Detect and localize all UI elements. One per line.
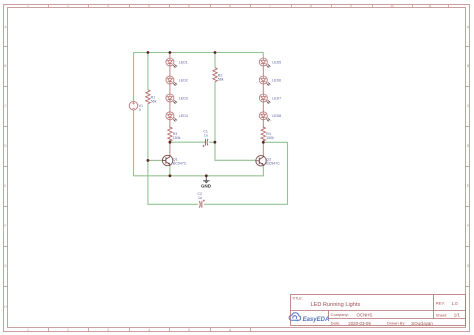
svg-text:10: 10 xyxy=(390,4,394,8)
Q2 collector lead xyxy=(262,142,264,155)
svg-text:1.0: 1.0 xyxy=(452,301,459,306)
LED LED5 xyxy=(259,58,281,67)
svg-text:2020-03-09: 2020-03-09 xyxy=(348,321,371,326)
svg-text:LED Running Lights: LED Running Lights xyxy=(311,302,361,308)
svg-text:6: 6 xyxy=(229,328,231,332)
svg-text:6: 6 xyxy=(229,4,231,8)
junction dot GND tap xyxy=(205,174,208,177)
LED LED2 xyxy=(166,76,188,85)
svg-text:EasyEDA: EasyEDA xyxy=(303,317,330,323)
svg-text:LED1: LED1 xyxy=(179,60,188,64)
resistor R4 xyxy=(261,127,274,141)
svg-text:3: 3 xyxy=(107,4,109,8)
frame column ticks top xyxy=(49,5,449,8)
svg-text:LED8: LED8 xyxy=(272,114,281,118)
svg-text:4: 4 xyxy=(148,328,150,332)
junction dot Q1 collector node xyxy=(169,141,172,144)
svg-text:4: 4 xyxy=(148,4,150,8)
svg-text:B: B xyxy=(4,64,6,68)
wire Q2 base run xyxy=(215,142,256,160)
LED LED6 xyxy=(259,76,281,85)
svg-text:1u: 1u xyxy=(204,134,208,138)
transistor Q2 xyxy=(256,155,280,166)
frame row ticks left xyxy=(4,47,8,287)
svg-text:OCNHS: OCNHS xyxy=(357,312,373,317)
LED LED3 xyxy=(166,94,188,103)
title block text xyxy=(292,296,460,325)
resistor R1 xyxy=(146,90,157,104)
svg-text:REV:: REV: xyxy=(436,301,445,306)
svg-text:TITLE:: TITLE: xyxy=(292,296,303,300)
junction dot top rail R2 xyxy=(214,51,217,54)
svg-text:7: 7 xyxy=(269,4,271,8)
junction dot top rail R1 xyxy=(147,51,150,54)
wire base node down to C2 rail xyxy=(148,160,198,204)
transistor Q1 xyxy=(162,155,186,166)
svg-text:1: 1 xyxy=(27,4,29,8)
svg-text:5: 5 xyxy=(188,4,190,8)
EasyEDA logo xyxy=(289,313,329,323)
frame column ticks bottom xyxy=(49,328,251,332)
wire C1 to R2 node xyxy=(209,141,215,143)
svg-text:F: F xyxy=(5,224,7,228)
svg-text:GND: GND xyxy=(201,183,212,188)
wire Q1 collector node to C1 xyxy=(170,141,204,143)
Q1 collector lead xyxy=(169,142,171,155)
LED LED8 xyxy=(259,112,281,121)
resistor R3 xyxy=(168,127,181,141)
wire Q1 emitter to ground rail xyxy=(169,166,171,176)
LED string left leads xyxy=(169,53,171,143)
junction dot top rail LED1 xyxy=(169,51,172,54)
svg-text:Drawn By:: Drawn By: xyxy=(387,321,405,326)
wire R1 bottom to Q1 base node xyxy=(147,104,149,161)
svg-text:9: 9 xyxy=(350,4,352,8)
svg-text:Company:: Company: xyxy=(331,312,349,317)
svg-text:1/1: 1/1 xyxy=(454,313,461,318)
svg-text:LED7: LED7 xyxy=(272,96,281,100)
svg-text:56k: 56k xyxy=(218,77,224,81)
svg-text:3: 3 xyxy=(107,328,109,332)
junction dot Q2 collector node xyxy=(262,141,265,144)
svg-text:11: 11 xyxy=(428,4,432,8)
svg-text:150k: 150k xyxy=(173,136,181,140)
svg-text:8: 8 xyxy=(310,4,312,8)
LED LED7 xyxy=(259,94,281,103)
wire top power rail xyxy=(134,52,264,54)
svg-text:2: 2 xyxy=(67,328,69,332)
svg-text:LED4: LED4 xyxy=(179,114,188,118)
wire R1 top lead xyxy=(147,53,149,90)
svg-text:2: 2 xyxy=(67,4,69,8)
svg-text:B: B xyxy=(467,64,469,68)
svg-text:BC547C: BC547C xyxy=(266,162,280,166)
svg-text:LED3: LED3 xyxy=(179,96,188,100)
wire Q1 base xyxy=(148,159,163,161)
svg-text:150k: 150k xyxy=(266,136,274,140)
svg-text:Date:: Date: xyxy=(331,321,341,326)
wire C2 to Q2 collector node xyxy=(204,142,288,204)
LED LED1 xyxy=(166,58,188,67)
svg-text:56k: 56k xyxy=(151,99,157,103)
svg-text:LED2: LED2 xyxy=(179,78,188,82)
svg-text:E: E xyxy=(467,184,469,188)
wire right LED string top xyxy=(262,53,264,58)
svg-text:BC547C: BC547C xyxy=(173,161,187,165)
svg-text:E: E xyxy=(4,184,6,188)
svg-text:Sheet:: Sheet: xyxy=(436,313,448,318)
title block xyxy=(291,295,466,326)
svg-text:5: 5 xyxy=(188,328,190,332)
svg-text:SOuclayan: SOuclayan xyxy=(411,321,433,326)
ground symbol GND xyxy=(201,176,212,189)
svg-text:1: 1 xyxy=(27,328,29,332)
resistor R2 xyxy=(213,68,224,82)
svg-text:1u: 1u xyxy=(198,196,202,200)
svg-text:LED6: LED6 xyxy=(272,78,281,82)
frame row ticks right xyxy=(466,47,470,287)
voltage source V1 xyxy=(129,101,143,111)
junction dot Q1 emitter ground xyxy=(169,174,172,177)
junction dot C1 R2 node xyxy=(214,141,217,144)
capacitor C2 xyxy=(197,192,205,208)
junction dot Q1 base node xyxy=(147,159,150,162)
wire R2 top lead xyxy=(214,53,216,68)
wire ground rail right half xyxy=(206,166,263,175)
capacitor C1 xyxy=(202,130,208,147)
LED string right leads xyxy=(262,66,264,142)
wire V1 top lead xyxy=(133,53,135,102)
LED LED4 xyxy=(166,112,188,121)
wire V1 bottom lead to ground rail xyxy=(134,110,207,176)
svg-text:9: 9 xyxy=(139,108,141,112)
svg-text:F: F xyxy=(467,224,469,228)
svg-text:LED5: LED5 xyxy=(272,60,281,64)
wire R2 bottom to C1 node xyxy=(214,82,216,143)
